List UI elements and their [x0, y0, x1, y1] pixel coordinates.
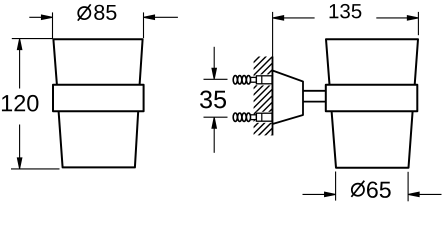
bottom screw shank: [251, 115, 257, 120]
cup body outline (right view): [326, 39, 418, 167]
bottom screw coils: [233, 113, 250, 121]
screw hole notch bottom: [256, 112, 272, 123]
dimension Ø85 left arrow: [29, 15, 52, 19]
dimension Ø85 text: [78, 4, 117, 20]
dimension 135 left arrow (pointing left): [273, 16, 315, 20]
dimension 135 extension line left (above wall): [272, 12, 274, 57]
holder arm bottom line: [303, 101, 326, 103]
dimension 120 bottom extension line: [11, 168, 60, 170]
dimension 120 top extension line: [12, 38, 53, 40]
dimension Ø85 right arrow: [144, 15, 178, 19]
dimension 35 top extension line: [204, 78, 228, 80]
dimension 135 text: [330, 4, 362, 19]
dimension 120 line with down arrow: [17, 125, 21, 169]
top screw coils: [233, 76, 250, 84]
screw hole notch top: [256, 74, 272, 85]
top screw head: [256, 76, 272, 84]
dimension 135 extension line right: [417, 12, 419, 35]
dimension 35 down arrow above: [212, 47, 216, 79]
wall bracket cone: [273, 71, 304, 125]
cup body outline (left view): [53, 39, 142, 167]
dimension 35 bottom extension line: [204, 116, 228, 118]
holder arm top line: [303, 90, 326, 92]
dimension 135 right arrow (pointing right): [376, 16, 418, 20]
dimension Ø65 left arrow: [303, 192, 336, 196]
cup holder band (right view): [326, 85, 418, 112]
dimension 35 text: [200, 91, 226, 109]
top screw shank: [251, 77, 257, 82]
wall face line: [272, 57, 274, 136]
dimension Ø65 extension line left: [335, 172, 337, 201]
cup holder band (left view): [53, 85, 144, 112]
dimension Ø65 extension line right: [407, 172, 409, 202]
wall hatching: [243, 26, 290, 190]
dimension 120 text: [2, 95, 38, 112]
dimension Ø85 extension line left: [52, 12, 54, 38]
bottom screw head: [256, 113, 272, 121]
dimension Ø65 text: [351, 181, 390, 198]
dimension Ø65 right arrow: [408, 192, 441, 196]
dimension 120 line with up arrow: [17, 39, 21, 89]
dimension Ø85 extension line right: [143, 12, 145, 38]
dimension 35 up arrow below: [212, 117, 216, 152]
